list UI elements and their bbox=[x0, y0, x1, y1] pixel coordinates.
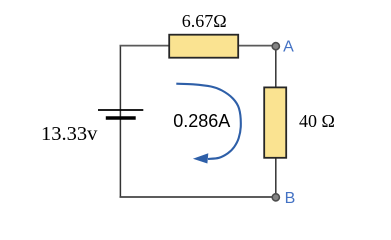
wire right vertical (node A to R2) bbox=[275, 46, 277, 88]
wire bottom horizontal bbox=[120, 196, 273, 198]
wire right vertical (R2 to node B) bbox=[275, 157, 277, 197]
svg-text:B: B bbox=[285, 190, 296, 207]
svg-text:0.286A: 0.286A bbox=[173, 111, 230, 131]
wire left vertical bbox=[119, 46, 121, 198]
svg-text:13.33v: 13.33v bbox=[41, 123, 98, 145]
battery V1 short thick plate bbox=[106, 116, 136, 119]
current loop arrow bbox=[176, 84, 241, 159]
node B terminal bbox=[272, 194, 279, 201]
resistor R2 body bbox=[264, 87, 286, 157]
current loop arrowhead bbox=[193, 153, 208, 163]
node A terminal bbox=[272, 43, 279, 50]
svg-text:A: A bbox=[283, 39, 294, 56]
svg-text:6.67Ω: 6.67Ω bbox=[182, 11, 227, 31]
resistor R1 body bbox=[169, 35, 238, 58]
wire top horizontal bbox=[120, 45, 273, 47]
battery V1 long plate bbox=[98, 109, 143, 111]
svg-text:40 Ω: 40 Ω bbox=[299, 111, 335, 131]
